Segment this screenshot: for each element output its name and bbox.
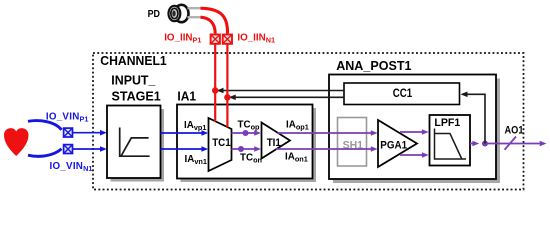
photodiode PD	[169, 5, 202, 22]
wire blue pad2 to INPUT_STAGE1	[73, 146, 107, 152]
wire PD lead to pad IIN P (curved)	[201, 17, 216, 33]
wire CC1 to node N (dc servo)	[229, 95, 344, 101]
node TCon	[238, 146, 244, 152]
bus slash	[505, 137, 517, 150]
node output junction	[482, 141, 488, 147]
node red P junction	[212, 87, 218, 93]
block SH1 (inactive)	[338, 118, 367, 167]
wire TCon TC1 to TI1	[232, 146, 262, 152]
amplifier PGA1	[378, 120, 417, 167]
wire red IIN P vertical	[214, 44, 216, 122]
svg-text:TC1: TC1	[212, 137, 231, 149]
block INPUT_STAGE1 box	[107, 106, 164, 182]
svg-text:STAGE1: STAGE1	[112, 90, 161, 104]
svg-text:PGA1: PGA1	[380, 140, 407, 152]
svg-text:LPF1: LPF1	[434, 117, 460, 129]
icon saturation curve	[120, 128, 150, 157]
wire body to pad VIN P (curved)	[28, 121, 62, 130]
wire red IIN N vertical	[226, 44, 228, 127]
wire body to pad VIN N (curved)	[28, 149, 62, 157]
wire feedback junction to CC1	[461, 92, 486, 144]
icon low-pass response	[435, 129, 467, 160]
block IA1 box	[177, 105, 316, 183]
svg-text:CHANNEL1: CHANNEL1	[100, 53, 166, 68]
pad IO_IIN_P1	[211, 35, 220, 44]
wire PGA1 to LPF1 bottom	[400, 152, 429, 158]
transconductor TC1	[209, 118, 232, 171]
block CHANNEL1 dashed boundary	[93, 53, 524, 190]
transimpedance amp TI1	[262, 123, 291, 159]
wire TCop TC1 to TI1	[232, 130, 262, 136]
pad IO_VIN_N1	[64, 145, 73, 154]
block LPF1	[430, 115, 471, 166]
node TCop	[243, 130, 249, 136]
node red N junction	[224, 94, 230, 100]
wire IAon1 TI1 to PGA1	[276, 146, 378, 152]
svg-text:ANA_POST1: ANA_POST1	[336, 58, 411, 73]
wire IAop1 TI1 to PGA1	[278, 130, 378, 136]
wire PD lead to pad IIN N (curved)	[201, 8, 228, 33]
svg-text:CC1: CC1	[393, 88, 413, 100]
wire blue pad1 to INPUT_STAGE1	[73, 130, 107, 136]
svg-text:IA1: IA1	[177, 90, 196, 104]
svg-text:INPUT_: INPUT_	[111, 74, 156, 88]
wire LPF1 output to junction	[470, 141, 479, 147]
wire IAvn1 INPUT_STAGE1 to TC1	[161, 146, 209, 152]
pad IO_IIN_N1	[223, 35, 232, 44]
wire PGA1 to LPF1 top	[400, 129, 429, 135]
heart (body / patient)	[4, 128, 29, 156]
wire CC1 to node P (dc servo)	[217, 88, 345, 94]
block CC1	[344, 83, 460, 105]
wire AO1 output	[482, 137, 547, 150]
wire IAvp1 INPUT_STAGE1 to TC1	[161, 130, 209, 136]
svg-text:AO1: AO1	[505, 124, 524, 136]
svg-text:TI1: TI1	[267, 137, 281, 149]
pad IO_VIN_P1	[64, 128, 73, 137]
block ANA_POST1 box	[329, 75, 500, 184]
svg-text:PD: PD	[148, 9, 160, 20]
